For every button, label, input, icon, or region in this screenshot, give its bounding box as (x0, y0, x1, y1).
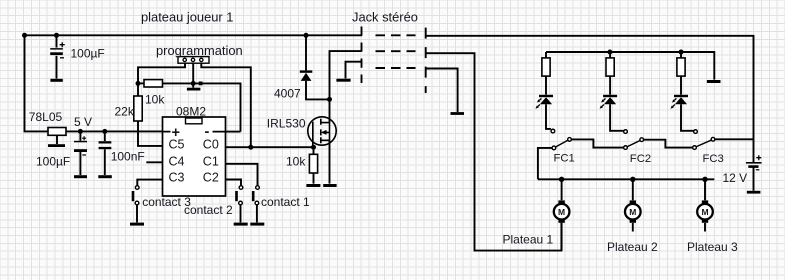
wire C3 to contact3 (137, 180, 162, 186)
motor M2 (625, 200, 641, 222)
svg-text:4007: 4007 (274, 86, 301, 100)
svg-text:IRL530: IRL530 (267, 117, 306, 131)
wire FC1 common to FC2 pole (572, 139, 624, 147)
jack coupling dashes row 2 (376, 50, 416, 52)
resistor R4 10k serial horizontal (144, 80, 163, 87)
wire 10k serial left lead (138, 82, 144, 84)
wire jack plug sleeve to ground (346, 62, 362, 79)
switch FC3 (693, 130, 715, 150)
wire jack socket ring to motor1 bottom (426, 53, 562, 250)
svg-text:Jack stéréo: Jack stéréo (352, 10, 418, 25)
ground (under C3) (98, 175, 112, 178)
svg-text:FC3: FC3 (703, 153, 724, 165)
junction R3 on ground rail (679, 50, 684, 55)
jack coupling dashes row 3 (376, 67, 416, 69)
switch FC1 (551, 129, 571, 149)
wire contact1 to ground (256, 205, 258, 222)
svg-text:programmation: programmation (156, 43, 243, 58)
connector J1 programmation 3 pins (178, 57, 209, 64)
svg-text:M: M (629, 207, 636, 217)
capacitor C1 100uF electrolytic (50, 42, 64, 58)
wire left vertical to regulator input (25, 35, 49, 131)
motor M3 (697, 200, 713, 222)
LED D4 (671, 95, 689, 109)
svg-text:C2: C2 (203, 171, 219, 185)
svg-text:C4: C4 (169, 155, 185, 169)
wire 22k to C5 pin (138, 121, 163, 146)
wire C0 to gate node (226, 146, 314, 148)
wire IC U1 plus/minus pin stubs (163, 131, 226, 133)
wire programming right pin to C0 node (201, 63, 251, 147)
ground (battery minus) (747, 191, 761, 194)
ground (under 10k gate) (306, 184, 320, 187)
capacitor C3 100nF (99, 141, 112, 149)
resistor R6 10k gate vertical (309, 154, 317, 173)
wire mosfet drain lead (329, 99, 331, 122)
ground (serial, under connector) (187, 88, 201, 91)
wire FC1 pole to motor rail (538, 148, 552, 179)
svg-text:5 V: 5 V (74, 115, 92, 129)
wire LED3 to FC3 (681, 104, 694, 131)
wire LED2 to FC2 (610, 104, 623, 131)
junction motor M2 on motor rail (630, 177, 635, 182)
ground (under C2) (74, 175, 87, 178)
svg-text:FC2: FC2 (630, 153, 651, 165)
wire battery minus lead (753, 167, 755, 191)
svg-text:Plateau 2: Plateau 2 (607, 240, 658, 254)
junction serial-in node (136, 81, 141, 86)
junction drain node (327, 97, 332, 102)
IC U1 notch (186, 118, 203, 124)
ground (LED rail right end) (707, 80, 721, 83)
wire motor rail (538, 178, 714, 180)
resistor R3 (677, 58, 685, 76)
junction gate node (311, 145, 316, 150)
jack socket body dashed line (425, 28, 427, 93)
wire contact2 to ground (240, 205, 242, 222)
svg-text:100µF: 100µF (36, 155, 70, 169)
transistor Q1 IRL530 MOSFET (308, 117, 336, 147)
wire gate 10k leads (313, 147, 315, 183)
wire 22k top lead (137, 83, 139, 96)
wire contact3 to ground (136, 205, 138, 222)
node marker square on serial ground net (199, 82, 203, 86)
junction serial ground node (191, 81, 196, 86)
LED D3 (600, 95, 618, 109)
wire cap C3 leads (104, 131, 106, 175)
svg-text:contact 2: contact 2 (184, 203, 233, 217)
wire motor M3 leads (704, 179, 706, 231)
wire motor M2 leads (632, 179, 634, 231)
junction C1 cap on 12V rail (54, 33, 59, 38)
wire 5V rail regulator to chip (66, 130, 163, 132)
ground (under contact 2) (234, 223, 248, 226)
svg-text:M: M (558, 207, 565, 217)
wire FC3 common to battery plus (715, 138, 754, 140)
junction top-left corner (22, 33, 27, 38)
battery B1 12V (746, 155, 762, 170)
wire cap C1 top lead (56, 35, 58, 47)
junction C3 cap on 5V rail (102, 129, 107, 134)
wire mosfet source lead (329, 140, 331, 183)
junction R2 on ground rail (607, 50, 612, 55)
wire regulator ground lead (56, 135, 58, 144)
svg-text:contact 1: contact 1 (261, 195, 310, 209)
wire cap C1 bottom lead (56, 56, 58, 79)
svg-text:08M2: 08M2 (176, 104, 206, 118)
junction C0 programming node (248, 145, 253, 150)
wire cap C2 leads (79, 131, 81, 175)
wire diode branch from rail (305, 35, 307, 70)
resistor R1 (542, 58, 550, 76)
wire LED ground rail (546, 52, 714, 80)
IC U1 08M2 body (163, 117, 226, 196)
ground (jack plug sleeve) (336, 79, 350, 82)
wire resistor R2 branch (609, 52, 611, 95)
wire jack socket tip / top right rail to battery (426, 36, 754, 162)
contact 2 switch (235, 186, 243, 205)
regulator U2 78L05 (48, 128, 66, 136)
wire resistor R1 branch (545, 52, 547, 95)
contact 1 switch (252, 186, 259, 205)
svg-text:plateau joueur 1: plateau joueur 1 (141, 10, 233, 25)
wire top-left +12V rail (25, 34, 363, 36)
svg-text:Plateau 1: Plateau 1 (503, 233, 554, 247)
wire programming mid pin to ground (192, 63, 194, 87)
capacitor C2 100uF electrolytic (74, 136, 87, 155)
motor M1 (554, 200, 570, 222)
ground (under contact 3) (130, 223, 144, 226)
wire C2 to contact2 (226, 180, 242, 186)
svg-text:100µF: 100µF (71, 47, 105, 61)
svg-text:22k: 22k (115, 104, 135, 118)
wire programming left pin to 22k junction (138, 63, 185, 83)
junction motor M3 on motor rail (702, 177, 707, 182)
svg-text:10k: 10k (286, 154, 306, 168)
resistor R2 (606, 58, 614, 76)
contact 3 switch (132, 186, 139, 205)
ground (under contact 1) (250, 223, 264, 226)
wire diode anode to drain node (306, 81, 330, 100)
wire LED1 to FC1 (546, 104, 551, 129)
svg-text:C3: C3 (169, 171, 185, 185)
svg-text:M: M (701, 207, 708, 217)
svg-text:-: - (205, 124, 210, 140)
svg-text:FC1: FC1 (554, 152, 575, 164)
svg-text:+: + (172, 125, 180, 141)
switch FC2 (624, 130, 644, 150)
svg-text:10k: 10k (145, 92, 165, 106)
jack coupling dashes row 1 (376, 34, 416, 36)
wire 10k serial right to ground net (163, 83, 241, 131)
svg-text:100nF: 100nF (111, 150, 145, 164)
junction motor M1 on motor rail (559, 177, 564, 182)
junction C2 cap on 5V rail (78, 129, 83, 134)
wire drain node up to jack ring (330, 51, 362, 99)
wire resistor R3 branch (680, 52, 682, 95)
ground (under mosfet source) (323, 184, 336, 187)
LED D2 (536, 95, 554, 109)
wire C4 stub (146, 161, 162, 163)
wire chip minus pin (226, 131, 241, 133)
junction diode D1 on 12V rail (304, 33, 309, 38)
wire jack socket sleeve to ground (426, 69, 458, 113)
wire motor M1 leads (561, 179, 563, 250)
svg-text:12 V: 12 V (723, 171, 748, 185)
jack plug body dashed line (361, 27, 363, 84)
ground (jack socket sleeve) (451, 112, 465, 115)
ground (under regulator) (48, 144, 65, 147)
wire FC2 common to FC3 pole (644, 140, 693, 148)
wire C1 to contact1 (226, 164, 258, 186)
svg-text:Plateau 3: Plateau 3 (687, 240, 738, 254)
diode D1 4007 (300, 70, 313, 81)
ground (under C1) (50, 79, 62, 82)
resistor R5 22k vertical (134, 96, 142, 121)
svg-text:78L05: 78L05 (29, 110, 63, 124)
svg-text:C1: C1 (203, 155, 219, 169)
